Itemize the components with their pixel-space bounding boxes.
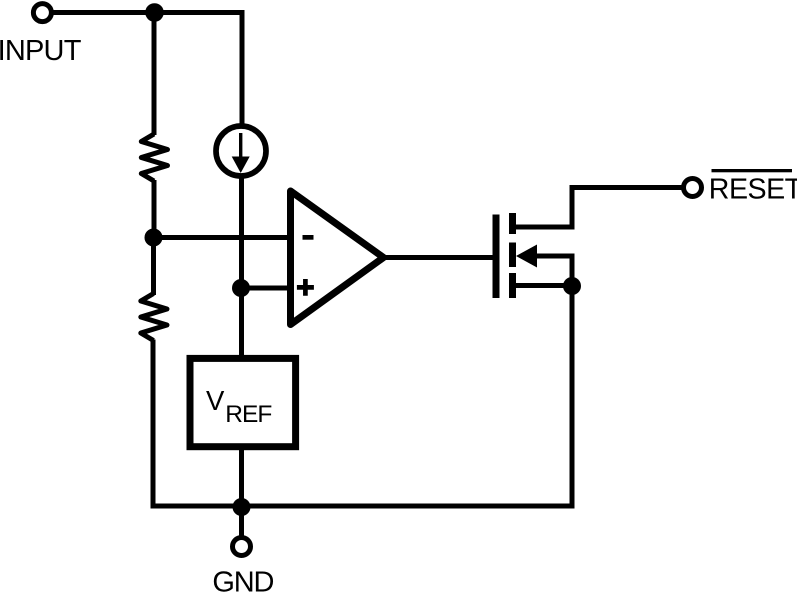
wire node A down to R1 — [152, 10, 157, 135]
wire GND stub — [239, 507, 244, 537]
svg-text:V: V — [206, 385, 225, 416]
wire current source down across inverting line to node C — [239, 176, 244, 290]
RESET overline — [712, 169, 793, 172]
transistor Q1 gate bar — [493, 215, 500, 299]
wire node B down to R2 — [151, 238, 156, 296]
wire R2 down along ground rail and up to Q1 source — [153, 286, 572, 506]
wire R1 to node B — [152, 180, 157, 238]
VREF box — [190, 358, 296, 446]
transistor Q1 channel segments — [509, 213, 516, 298]
wire op-amp output to gate — [384, 255, 493, 260]
wire node B to op-amp inverting input — [154, 235, 294, 240]
op-amp plus symbol — [297, 279, 314, 296]
wire node C to op-amp non-inverting input — [241, 286, 293, 291]
op-amp minus symbol — [303, 235, 314, 240]
wire INPUT to node A and over to current source — [53, 13, 242, 127]
transistor Q1 body diode arrow — [516, 245, 537, 268]
RESET terminal — [684, 179, 702, 197]
op-amp U1 — [291, 191, 384, 325]
svg-text:REF: REF — [225, 401, 271, 428]
node GND (junction on ground rail) — [233, 498, 251, 516]
svg-text:GND: GND — [212, 567, 273, 599]
node C (reference node) — [232, 279, 250, 297]
resistor R2 — [141, 294, 167, 341]
wire node C down to VREF — [239, 288, 244, 358]
node source (junction) — [563, 277, 581, 295]
svg-text:INPUT: INPUT — [0, 35, 82, 67]
wire Q1 drain to RESET terminal — [513, 188, 683, 228]
svg-text:RESET: RESET — [709, 174, 797, 206]
transistor Q1 source stub — [513, 283, 573, 288]
node A (junction on top rail) — [145, 3, 164, 22]
INPUT terminal — [33, 4, 51, 22]
node B (divider tap) — [145, 229, 163, 247]
wire body to source node — [530, 256, 572, 287]
resistor R1 — [141, 134, 167, 181]
wire VREF to ground rail — [239, 446, 244, 508]
current source I1 — [216, 126, 266, 176]
GND terminal — [233, 538, 251, 556]
